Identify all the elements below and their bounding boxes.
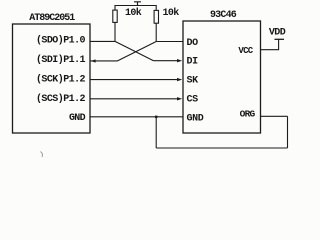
U2 pin label CS [187,95,199,106]
power net label VDD [269,28,286,39]
resistor R2 value label 10k [163,7,180,19]
IC U1 label AT89C2051 [29,13,75,24]
wire DO diagonal crossing up to R2 junction [118,42,157,61]
power terminal VCC at top of pull-up rail [134,2,141,6]
svg-text:GND: GND [69,113,86,124]
svg-text:(SCK)P1.2: (SCK)P1.2 [36,74,86,86]
svg-text:10k: 10k [125,7,142,19]
wire top pull-up rail R1 top to R2 top [115,6,156,11]
svg-text:VCC: VCC [238,46,253,56]
svg-text:10k: 10k [163,7,180,19]
resistor R2 10k body [154,10,158,23]
svg-text:GND: GND [187,113,204,124]
junction dot GND net at ORG return stub [155,116,157,118]
IC U1 AT89C2051 body [13,24,91,133]
svg-text:AT89C2051: AT89C2051 [29,13,75,24]
svg-text:SK: SK [187,76,199,87]
wire R2 bottom lead to DO node junction [155,23,157,41]
resistor R1 10k body [113,10,117,22]
wire bottom return run to the right [156,147,287,149]
wire GND net down to bottom return [155,117,157,148]
svg-text:93C46: 93C46 [210,10,237,21]
svg-text:DI: DI [187,57,199,68]
wire U1 P1.0 (SDO) from box to R1 junction [90,40,115,42]
U1 pin label (SDI)P1.1 [36,54,86,66]
wire SDO net horizontal into U2 DI pin [154,60,180,62]
power terminal VDD bar [275,38,285,40]
arrowhead into U2 SK pin [177,78,182,81]
U2 pin label GND [187,113,204,124]
svg-text:(SCS)P1.2: (SCS)P1.2 [36,93,86,105]
svg-text:DO: DO [187,38,199,49]
U1 pin label (SCK)P1.2 [36,74,86,86]
svg-text:(SDI)P1.1: (SDI)P1.1 [36,54,86,66]
arrowhead into U1 P1.1 pin [91,59,96,62]
arrowhead into U2 DI pin [177,59,182,62]
U2 pin label SK [187,76,199,87]
wire right riser from bottom return to ORG [287,116,289,148]
wire U1 P1.2 (SCK) to U2 SK [90,79,179,81]
wire U1 P1.1 (SDI) from box edge rightwards [90,60,118,62]
U2 pin label DI [187,57,199,68]
U2 pin label VCC [238,46,253,56]
wire R1 bottom lead to SDO node junction [114,22,116,41]
wire DO net horizontal into U2 DO pin [156,41,183,43]
U1 pin label (SDO)P1.0 [36,34,86,46]
IC U2 label 93C46 [210,10,237,21]
svg-text:VDD: VDD [269,28,286,39]
U1 pin label GND [69,113,86,124]
svg-text:(SDO)P1.0: (SDO)P1.0 [36,34,86,46]
resistor R1 value label 10k [125,7,142,19]
wire U1 GND to U2 GND [90,116,183,118]
U2 pin label DO [187,38,199,49]
wire U1 P1.2 (SCS) to U2 CS [90,98,179,100]
wire U2 VCC pin out and up to VDD terminal [261,39,279,49]
IC U2 93C46 body [183,21,261,133]
wire SDO diagonal crossing down to DI level [115,41,154,60]
U1 pin label (SCS)P1.2 [36,93,86,105]
stray scan mark (faint) bottom left [41,152,43,158]
U2 pin label ORG [240,109,256,120]
svg-text:ORG: ORG [240,109,256,120]
svg-text:CS: CS [187,95,199,106]
wire U2 ORG pin out to right riser [261,115,288,117]
arrowhead into U2 CS pin [177,97,182,100]
